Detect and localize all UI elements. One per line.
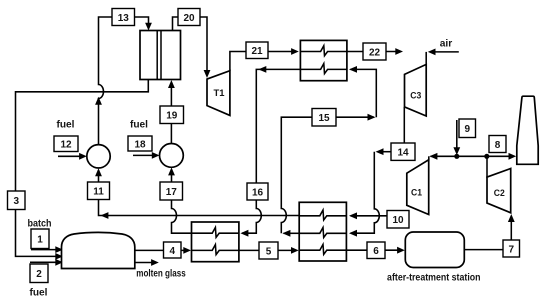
wire C1 to stream 10 into HX2 row1 (349, 212, 387, 219)
wire regenerator right chamber top through stream 20 into turbine T1 (173, 17, 211, 78)
wire T1 to stream 21 into HX1 row1 (230, 48, 299, 71)
chimney stack (517, 96, 538, 164)
wire air inlet into C3 (426, 49, 459, 66)
heat exchanger HX3 (192, 222, 239, 262)
svg-text:molten glass: molten glass (136, 269, 186, 280)
wire C3 down to stream 14 into HX2 row2 (with hop over stream-10 line) (349, 107, 404, 237)
stream box 20 (178, 9, 200, 26)
svg-text:18: 18 (134, 139, 146, 150)
wire batch stream 1 into furnace (31, 246, 63, 253)
svg-text:15: 15 (318, 113, 330, 124)
stream box 10 (387, 211, 409, 229)
wire combustor1 top to stream 13 to regenerator left chamber (with hop over line 3) (95, 17, 152, 145)
svg-text:after-treatment station: after-treatment station (387, 272, 481, 283)
wire HX1 row2 left down through stream 16 into HX3 row1 (with hop) (240, 66, 300, 237)
turbine T1 (207, 71, 230, 116)
regenerator (double chamber) (140, 31, 181, 80)
wire combustor2 top through stream 19 into regenerator right chamber (168, 80, 175, 144)
heat exchanger HX2 (299, 202, 346, 261)
WIRES-LAYER (16, 17, 517, 266)
stream box 5 (259, 242, 278, 259)
wire HX3 row1 left to stream 17 to combustor2 (with hop over long line) (168, 167, 191, 233)
compressor C3 (405, 64, 427, 116)
stream box 13 (112, 9, 135, 26)
wire HX2 to stream 6 to after-treatment station (346, 247, 404, 254)
stream box 14 (391, 143, 415, 160)
stream box 3 (8, 191, 26, 210)
stream box 12 (54, 136, 78, 152)
svg-text:13: 13 (118, 13, 130, 24)
svg-text:22: 22 (369, 47, 381, 58)
after-treatment station (405, 232, 464, 268)
stream box 6 (367, 242, 385, 259)
compressor C2 (487, 169, 511, 213)
svg-text:2: 2 (36, 269, 42, 280)
svg-text:19: 19 (166, 111, 178, 122)
wire regenerator left chamber bottom to stream 3 to furnace (16, 80, 149, 260)
wire C2 outlet riser to header (486, 156, 488, 178)
svg-text:fuel: fuel (30, 288, 48, 299)
svg-text:6: 6 (373, 246, 379, 257)
svg-text:C1: C1 (411, 188, 423, 199)
svg-text:10: 10 (392, 215, 404, 226)
combustor 1 (87, 145, 110, 168)
svg-text:1: 1 (37, 235, 43, 246)
stream box 17 (160, 182, 183, 200)
wire exhaust header line C1/C2/chimney (429, 153, 516, 160)
stream box 19 (160, 106, 184, 124)
TEXT-LAYER (28, 38, 505, 298)
furnace (molten glass tank) (62, 232, 135, 268)
svg-text:14: 14 (397, 148, 409, 159)
wire fuel stream 18 into combustor2 (133, 152, 160, 159)
svg-text:5: 5 (266, 246, 272, 257)
svg-text:C2: C2 (494, 188, 505, 199)
wire HX1 row1 to stream 22 outlet (347, 48, 403, 55)
stream box 9 (459, 119, 476, 138)
combustor 2 (160, 144, 184, 168)
stream box 4 (164, 242, 182, 258)
svg-text:11: 11 (93, 187, 104, 198)
wire after-treatment station to stream 7 (464, 249, 503, 251)
stream box 16 (247, 183, 268, 200)
svg-text:16: 16 (252, 187, 264, 198)
svg-text:C3: C3 (410, 90, 421, 101)
wire furnace to stream 4 to heat exchanger HX3 (135, 247, 191, 254)
wire stream 7 riser up into C2 (508, 214, 515, 240)
wire HX3 to stream 5 to heat exchanger HX2 (239, 247, 299, 254)
junction node header/stream9 (454, 154, 459, 159)
svg-text:fuel: fuel (130, 119, 148, 130)
svg-text:20: 20 (183, 13, 195, 24)
heat exchanger HX1 (300, 40, 347, 80)
svg-text:4: 4 (170, 246, 176, 257)
svg-text:3: 3 (14, 196, 20, 207)
wire stream 9 drop into header (453, 120, 460, 155)
svg-text:batch: batch (28, 218, 52, 229)
wire fuel stream 12 into combustor1 (58, 153, 87, 160)
stream box 15 (312, 109, 336, 127)
svg-text:7: 7 (509, 244, 515, 255)
stream box 1 (31, 229, 49, 249)
svg-text:fuel: fuel (57, 119, 75, 130)
svg-text:21: 21 (251, 46, 263, 57)
wire HX2 row2 left up through stream 15 into HX1 row2 (with hop) (281, 66, 376, 237)
wire fuel stream 2 into furnace (30, 259, 63, 266)
wire molten glass outlet (135, 259, 159, 266)
stream box 2 (30, 264, 48, 283)
svg-text:9: 9 (465, 124, 471, 135)
COMPONENTS-LAYER (62, 31, 539, 269)
junction node header/C2 (484, 154, 489, 159)
svg-text:T1: T1 (214, 88, 226, 99)
stream box 8 (489, 136, 506, 153)
stream box 21 (246, 42, 268, 59)
svg-text:air: air (440, 38, 453, 49)
stream box 18 (128, 136, 152, 151)
wire long recirculation line HX2 row1 to stream 11 to combustor1 (95, 168, 299, 219)
wire drop from header into C1 (428, 156, 430, 160)
stream box 7 (503, 240, 520, 257)
svg-text:8: 8 (495, 140, 501, 151)
stream box 11 (88, 182, 110, 200)
svg-text:17: 17 (166, 187, 178, 198)
compressor C1 (407, 160, 429, 215)
stream box 22 (363, 43, 386, 60)
svg-text:12: 12 (60, 140, 72, 151)
